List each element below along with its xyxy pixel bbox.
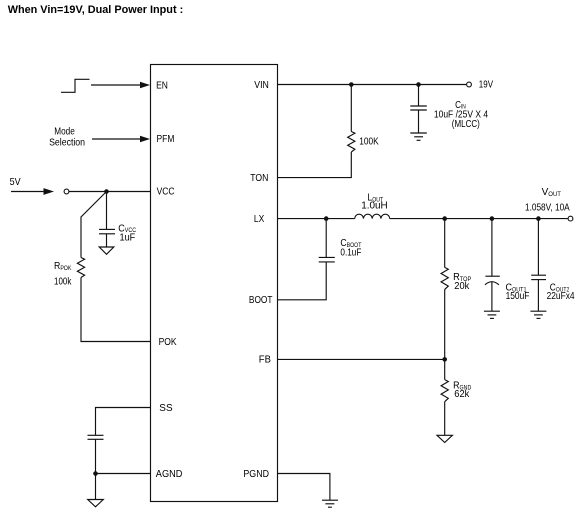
svg-text:EN: EN: [156, 80, 168, 91]
svg-text:LX: LX: [254, 213, 264, 224]
svg-text:COUT1: COUT1: [506, 282, 527, 294]
svg-text:VIN: VIN: [254, 78, 269, 90]
svg-text:VOUT: VOUT: [542, 187, 562, 198]
svg-text:POK: POK: [159, 336, 178, 347]
svg-text:(MLCC): (MLCC): [452, 118, 480, 129]
svg-text:RPOK: RPOK: [54, 259, 72, 272]
svg-text:Selection: Selection: [49, 136, 85, 148]
svg-text:When Vin=19V, Dual Power Input: When Vin=19V, Dual Power Input :: [8, 4, 184, 16]
svg-text:CIN: CIN: [455, 99, 466, 111]
svg-text:BOOT: BOOT: [249, 294, 273, 305]
svg-text:TON: TON: [250, 172, 268, 183]
svg-text:5V: 5V: [10, 177, 22, 189]
svg-text:100K: 100K: [359, 136, 379, 147]
svg-text:LOUT: LOUT: [367, 192, 383, 203]
svg-text:SS: SS: [159, 403, 173, 414]
svg-text:19V: 19V: [479, 79, 493, 90]
svg-text:1.058V, 10A: 1.058V, 10A: [525, 202, 570, 213]
svg-text:COUT2: COUT2: [550, 282, 569, 294]
svg-text:RTOP: RTOP: [453, 272, 471, 283]
svg-text:FB: FB: [259, 354, 271, 365]
svg-text:100k: 100k: [54, 275, 72, 286]
svg-text:CBOOT: CBOOT: [340, 237, 362, 248]
svg-text:CVCC: CVCC: [118, 223, 136, 235]
svg-text:VCC: VCC: [157, 186, 175, 197]
svg-text:AGND: AGND: [156, 469, 183, 480]
svg-text:PFM: PFM: [157, 134, 175, 145]
svg-text:RGND: RGND: [453, 380, 471, 392]
svg-text:PGND: PGND: [243, 469, 269, 481]
